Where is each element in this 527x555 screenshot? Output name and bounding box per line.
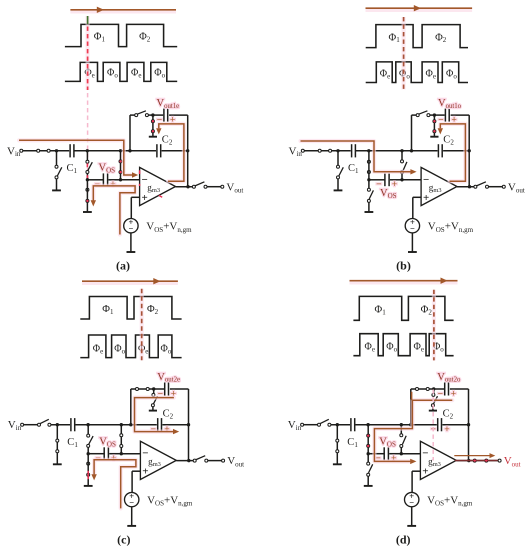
caption (b) bbox=[396, 259, 411, 273]
terminal Vout panel c bbox=[222, 455, 245, 468]
label Vos+Vn,gm panel d bbox=[427, 495, 473, 508]
terminal Vout panel d bbox=[498, 455, 521, 468]
switch S8 output sampling panel d bbox=[473, 459, 488, 462]
ground below noise source panel a bbox=[127, 233, 136, 252]
clock arrow timeline panel b bbox=[366, 5, 473, 11]
polarity marks C2 panel c bbox=[151, 425, 170, 435]
wire N4 to inverting input panel c bbox=[122, 453, 140, 455]
label Vos+Vn,gm panel c bbox=[147, 495, 193, 508]
wire N4 to inverting input panel a bbox=[121, 179, 140, 181]
wire right vertical feedback panel a bbox=[187, 115, 189, 187]
node N8 output panel b bbox=[468, 185, 471, 188]
noise source Vos+Vn,gm panel c bbox=[125, 491, 139, 508]
capacitor C1 panel c bbox=[67, 418, 78, 449]
input source Vin panel c bbox=[8, 419, 24, 432]
feedback capacitor C2 panel d bbox=[438, 409, 454, 432]
wire N4 to inverting input panel b bbox=[403, 179, 422, 181]
wire top branch rail panel a bbox=[130, 114, 188, 116]
red contact segments on op-amp edge panel a bbox=[140, 170, 163, 197]
switch S2 and ground below input node panel c bbox=[53, 425, 62, 465]
clock waveform Phi1 Phi2 panel b bbox=[366, 25, 468, 48]
node N1 input panel c bbox=[56, 423, 59, 426]
svg-text:−: − bbox=[410, 224, 415, 234]
switch S8 output sampling panel a bbox=[192, 182, 207, 188]
red contact dots panel d bbox=[367, 435, 369, 448]
ground below noise source panel d bbox=[407, 507, 416, 526]
signal path noise source to Vos cap panel a bbox=[91, 186, 136, 235]
wire main input rail panel b bbox=[304, 150, 469, 152]
svg-text:(b): (b) bbox=[396, 259, 411, 273]
caption (c) bbox=[117, 532, 130, 546]
node N3 Vos-cap left panel a bbox=[86, 178, 89, 181]
terminal Vout panel a bbox=[221, 181, 244, 194]
offset capacitor Vos panel c bbox=[89, 447, 122, 460]
signal path output overlay panel d bbox=[454, 453, 498, 462]
switch S6 phase-2 on top rail panel a bbox=[135, 111, 149, 117]
switch S5 phase-e between N4 and main rail panel d bbox=[400, 425, 406, 454]
sampling capacitor Vout1o panel b bbox=[445, 109, 449, 122]
node N4 Vos-cap right panel b bbox=[400, 178, 403, 181]
op-amp U1 gm3 panel b bbox=[421, 167, 457, 205]
input source Vin panel a bbox=[7, 145, 23, 158]
switch S2 and ground below input node panel d bbox=[333, 425, 342, 465]
wire output panel a bbox=[176, 186, 221, 188]
svg-text:+: + bbox=[142, 466, 148, 478]
sampling instant faint dashed continuation panel d bbox=[432, 390, 434, 461]
node N9 S5 to main rail panel c bbox=[120, 423, 123, 426]
wire output panel b bbox=[457, 186, 502, 188]
wire main input rail panel c bbox=[24, 424, 189, 426]
feedback capacitor C2 panel a bbox=[157, 135, 173, 158]
node N7 feedback to main rail panel d bbox=[467, 423, 470, 426]
node N1 input panel b bbox=[336, 149, 339, 152]
node N1 input panel d bbox=[336, 423, 339, 426]
op-amp U1 gm3 panel c bbox=[140, 441, 176, 479]
svg-text:(a): (a) bbox=[116, 259, 130, 273]
wire main input rail panel a bbox=[23, 150, 188, 152]
node N6 top rail panel b bbox=[433, 113, 436, 116]
node N4 Vos-cap right panel d bbox=[400, 452, 403, 455]
node N7 feedback to main rail panel b bbox=[468, 149, 471, 152]
wire left vertical of top branch panel a bbox=[129, 115, 131, 151]
switch S5 phase-e between N4 and main rail panel b bbox=[401, 151, 407, 180]
node N3 Vos-cap left panel b bbox=[367, 178, 370, 181]
clock waveform Phi1 Phi2 panel d bbox=[353, 296, 453, 320]
sampling capacitor Vout2o panel d bbox=[445, 383, 449, 396]
svg-text:−: − bbox=[128, 224, 133, 234]
switch S8 output sampling panel b bbox=[474, 182, 489, 188]
signal path output to sampling cap panel a bbox=[156, 124, 184, 181]
switch S4 phase-e and ground below N3 panel a bbox=[83, 180, 92, 212]
switch S5 phase-e between N4 and main rail panel c bbox=[120, 425, 123, 454]
svg-text:−: − bbox=[129, 498, 134, 508]
wire noninverting input panel d bbox=[412, 471, 420, 492]
node N5 main rail to top branch panel c bbox=[129, 423, 132, 426]
switch S7 phase-1 and ground below N6 panel a bbox=[149, 115, 157, 137]
node N9 S5 to main rail panel a bbox=[119, 149, 122, 152]
switch S4 phase-e and ground below N3 panel d bbox=[364, 454, 373, 486]
label Vout2e panel c bbox=[157, 372, 180, 384]
caption (d) bbox=[396, 532, 411, 546]
sampling instant dashed line panel c bbox=[140, 289, 144, 361]
polarity marks Vos capacitor panel b bbox=[376, 180, 397, 190]
polarity marks C2 panel d bbox=[431, 425, 450, 435]
switch S5 phase-e between N4 and main rail panel a bbox=[119, 151, 122, 180]
switch S6 phase-2 on top rail panel d bbox=[416, 388, 430, 391]
wire output panel d bbox=[456, 460, 498, 462]
label Vout1e panel a bbox=[157, 98, 180, 110]
label Vos+Vn,gm panel a bbox=[146, 221, 192, 234]
svg-text:+: + bbox=[444, 425, 449, 435]
sampling instant dashed line panel b bbox=[402, 17, 406, 90]
node N4 Vos-cap right panel c bbox=[120, 452, 123, 455]
node N5 main rail to top branch panel a bbox=[128, 149, 131, 152]
svg-text:+: + bbox=[422, 466, 428, 478]
node N2 after C1 panel b bbox=[367, 149, 370, 152]
label Vout2o panel d bbox=[437, 372, 461, 384]
wire noninverting input panel a bbox=[131, 197, 139, 218]
sampling instant dashed line panel a bbox=[85, 16, 89, 193]
red contact dots panel b bbox=[433, 120, 435, 132]
node N2 after C1 panel d bbox=[366, 423, 369, 426]
noise source Vos+Vn,gm panel b bbox=[405, 217, 419, 234]
ground below noise source panel c bbox=[127, 507, 136, 526]
node N2 after C1 panel c bbox=[86, 423, 89, 426]
polarity marks sampling capacitor panel c bbox=[158, 390, 177, 400]
svg-text:−: − bbox=[438, 390, 443, 400]
op-amp U1 gm3 panel a bbox=[140, 167, 176, 205]
clock waveform Phie Phio pulses panel a bbox=[65, 62, 177, 81]
polarity marks sampling capacitor panel b bbox=[438, 116, 457, 126]
polarity marks sampling capacitor panel d bbox=[438, 390, 457, 400]
switch S3 phase-o between N2 and Vos node panel a bbox=[86, 151, 92, 180]
switch S6 phase-2 on top rail panel b bbox=[416, 111, 430, 117]
capacitor C1 panel a bbox=[67, 144, 78, 175]
signal path sampling cap to output rail panel c bbox=[135, 398, 180, 435]
node N9 S5 to main rail panel b bbox=[400, 149, 403, 152]
clock waveform Phie Phio pulses panel b bbox=[366, 62, 468, 83]
svg-text:+: + bbox=[142, 192, 148, 204]
node N6 top rail panel d bbox=[432, 387, 435, 390]
signal path noise source to Vos cap panel c bbox=[91, 460, 135, 509]
polarity marks Vos capacitor panel c bbox=[95, 454, 116, 464]
node N3 Vos-cap left panel c bbox=[87, 452, 90, 455]
polarity marks Vos capacitor panel a bbox=[95, 180, 116, 190]
switch S3 phase-o between N2 and Vos node panel d bbox=[367, 425, 370, 454]
switch S8 output sampling panel c bbox=[193, 456, 208, 462]
switch S7 phase-1 and ground below N6 panel c bbox=[149, 389, 158, 411]
switch S3 phase-o between N2 and Vos node panel b bbox=[367, 151, 370, 180]
switch S2 and ground below input node panel a bbox=[52, 151, 62, 191]
svg-text:−: − bbox=[409, 498, 414, 508]
red contact segment panel c bbox=[87, 471, 89, 479]
node N8 output panel d bbox=[467, 459, 470, 462]
capacitor C1 panel b bbox=[348, 144, 359, 175]
wire right vertical feedback panel b bbox=[468, 115, 470, 187]
signal path top-rail stub panel d bbox=[411, 392, 413, 400]
noise source Vos+Vn,gm panel a bbox=[124, 217, 138, 234]
label Vout1o panel b bbox=[438, 98, 462, 110]
input source Vin panel d bbox=[288, 419, 304, 432]
node N6 top rail panel a bbox=[151, 113, 154, 116]
switch S4 phase-e and ground below N3 panel c bbox=[84, 454, 93, 486]
wire left vertical of top branch panel d bbox=[410, 389, 412, 425]
clock arrow timeline panel a bbox=[70, 7, 176, 13]
switch S6 phase-2 on top rail panel c bbox=[136, 388, 150, 391]
clock arrow timeline panel c bbox=[82, 278, 178, 284]
switch S1 input sampling panel b bbox=[318, 149, 331, 152]
node N5 main rail to top branch panel b bbox=[410, 149, 413, 152]
ground below noise source panel b bbox=[408, 233, 417, 252]
offset capacitor Vos panel b bbox=[370, 173, 403, 186]
svg-text:(c): (c) bbox=[117, 532, 130, 546]
switch S1 input sampling panel d bbox=[318, 419, 331, 426]
svg-text:+: + bbox=[392, 180, 397, 190]
feedback capacitor C2 panel b bbox=[438, 135, 454, 158]
capacitor C1 panel d bbox=[347, 418, 358, 449]
svg-text:(d): (d) bbox=[396, 532, 411, 546]
wire main input rail panel d bbox=[304, 424, 469, 426]
red contact dots panel a bbox=[86, 120, 154, 202]
switch S1 input sampling panel c bbox=[38, 419, 51, 426]
offset capacitor Vos panel a bbox=[88, 173, 121, 186]
wire noninverting input panel b bbox=[413, 197, 421, 218]
svg-text:+: + bbox=[423, 192, 429, 204]
sampling capacitor Vout1e panel a bbox=[164, 109, 168, 122]
op-amp U1 gm3 panel d bbox=[420, 441, 456, 479]
switch S1 input sampling panel a bbox=[37, 149, 50, 152]
offset capacitor Vos panel d bbox=[369, 447, 402, 460]
wire left vertical of top branch panel b bbox=[411, 115, 413, 151]
clock waveform Phie Phio pulses panel c bbox=[80, 335, 181, 358]
node N2 after C1 panel a bbox=[86, 149, 89, 152]
feedback capacitor C2 panel c bbox=[158, 409, 174, 432]
signal path sampling cap to inverting input panel d bbox=[374, 400, 452, 464]
switch S7 phase-1 and ground below N6 panel b bbox=[430, 115, 438, 137]
sampling capacitor Vout2e panel c bbox=[165, 383, 169, 396]
svg-text:−: − bbox=[376, 180, 381, 190]
node N4 Vos-cap right panel a bbox=[119, 178, 122, 181]
wire N4 to inverting input panel d bbox=[402, 453, 421, 455]
node N8 output panel a bbox=[186, 185, 189, 188]
wire top branch rail panel d bbox=[411, 388, 469, 390]
node N8 output panel c bbox=[187, 459, 190, 462]
wire top branch rail panel b bbox=[412, 114, 470, 116]
sampling instant dashed line panel d bbox=[432, 290, 436, 361]
terminal Vout panel b bbox=[502, 181, 525, 194]
switch S2 and ground below input node panel b bbox=[334, 151, 344, 191]
caption (a) bbox=[116, 259, 130, 273]
input source Vin panel b bbox=[289, 145, 305, 158]
node N3 Vos-cap left panel d bbox=[367, 452, 370, 455]
node N7 feedback to main rail panel c bbox=[187, 423, 190, 426]
node N7 feedback to main rail panel a bbox=[186, 149, 189, 152]
signal path Vin to inverting input panel a bbox=[19, 140, 138, 177]
polarity marks sampling capacitor panel a bbox=[157, 116, 176, 126]
polarity marks Vos capacitor panel d bbox=[375, 454, 396, 464]
noise source Vos+Vn,gm panel d bbox=[405, 491, 419, 508]
node N1 input panel a bbox=[55, 149, 58, 152]
clock waveform Phi1 Phi2 panel c bbox=[80, 297, 181, 320]
signal path output to sampling cap panel b bbox=[438, 124, 466, 181]
node N5 main rail to top branch panel d bbox=[409, 423, 412, 426]
switch S3 phase-o between N2 and Vos node panel c bbox=[87, 425, 93, 454]
wire right vertical feedback panel c bbox=[188, 389, 190, 461]
clock waveform Phi1 Phi2 panel a bbox=[65, 24, 177, 46]
switch S4 phase-e and ground below N3 panel b bbox=[365, 180, 374, 212]
wire right vertical feedback panel d bbox=[468, 389, 470, 461]
wire top branch rail panel c bbox=[131, 388, 189, 390]
node N9 S5 to main rail panel d bbox=[400, 423, 403, 426]
clock waveform Phie Phio pulses panel d bbox=[353, 334, 453, 356]
switch S7 phase-1 and ground below N6 panel d bbox=[429, 389, 438, 411]
wire output panel c bbox=[176, 460, 221, 462]
node N6 top rail panel c bbox=[152, 387, 155, 390]
svg-text:+: + bbox=[451, 390, 456, 400]
wire left vertical of top branch panel c bbox=[130, 389, 132, 425]
wire noninverting input panel c bbox=[132, 471, 140, 492]
label Vos+Vn,gm panel b bbox=[428, 221, 474, 234]
signal path Vin to inverting input over Vos cap panel b bbox=[301, 141, 417, 175]
clock arrow timeline panel d bbox=[350, 278, 458, 284]
